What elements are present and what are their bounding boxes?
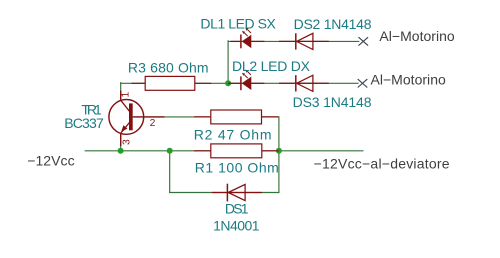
svg-text:2: 2	[150, 118, 156, 129]
svg-text:DL1 LED SX: DL1 LED SX	[200, 16, 276, 32]
svg-text:Al−Motorino: Al−Motorino	[379, 28, 455, 44]
transistor TR1	[109, 91, 165, 147]
LED DL1	[231, 28, 265, 49]
svg-text:DS1: DS1	[225, 200, 249, 216]
svg-text:3: 3	[122, 139, 133, 145]
svg-text:DS2 1N4148: DS2 1N4148	[294, 16, 372, 32]
LED DL2	[228, 70, 264, 91]
wire vertical V4 left of DS1	[169, 151, 171, 193]
wire row E (DS1 row)	[170, 192, 279, 194]
wire row B (R3 / DL2 / DS3 row)	[121, 82, 358, 84]
diode DS1	[212, 184, 262, 202]
wire rail row D (-12Vcc rail)	[85, 150, 363, 152]
svg-text:DS3 1N4148: DS3 1N4148	[293, 94, 372, 110]
diode DS2	[279, 33, 329, 49]
svg-text:−12Vcc−al−deviatore: −12Vcc−al−deviatore	[314, 156, 450, 172]
svg-text:R3 680 Ohm: R3 680 Ohm	[128, 60, 209, 76]
svg-text:−12Vcc: −12Vcc	[27, 153, 74, 169]
wire vertical V5 right	[278, 117, 280, 193]
junction emitter/rail	[118, 148, 124, 154]
junction rail/V5	[276, 148, 282, 154]
wire row A (top motor row)	[228, 40, 359, 42]
resistor R2	[194, 110, 278, 124]
svg-text:DL2 LED DX: DL2 LED DX	[232, 58, 311, 74]
svg-text:1: 1	[120, 91, 131, 97]
wire emitter drop V3	[120, 133, 122, 151]
resistor R1	[194, 144, 279, 158]
svg-text:BC337: BC337	[64, 115, 104, 131]
svg-text:Al−Motorino: Al−Motorino	[371, 72, 447, 88]
junction rail/V4	[167, 148, 173, 154]
wire vertical V1 junction to DL1	[227, 41, 229, 84]
diode DS3	[279, 75, 329, 91]
wire row C (base to R2)	[133, 116, 279, 118]
svg-text:1N4001: 1N4001	[213, 217, 260, 233]
wire collector drop V2	[120, 83, 122, 100]
resistor R3	[132, 76, 212, 90]
junction at R3/DL2	[225, 80, 231, 86]
svg-text:R2 47 Ohm: R2 47 Ohm	[194, 126, 272, 142]
svg-text:R1 100 Ohm: R1 100 Ohm	[195, 159, 279, 175]
no-connect X row B	[358, 79, 368, 87]
no-connect X row A	[359, 37, 369, 45]
